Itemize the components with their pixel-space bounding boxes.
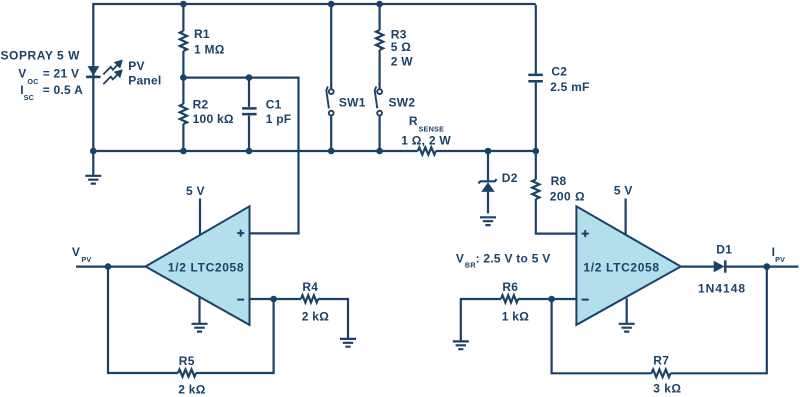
pin U1 inverting marker xyxy=(237,299,244,301)
ground D2 xyxy=(480,217,496,225)
svg-text:OC: OC xyxy=(27,77,38,86)
svg-text:R6: R6 xyxy=(502,280,518,294)
node C1 bottom rail xyxy=(246,148,253,155)
capacitor C2 xyxy=(528,75,543,81)
label D1 value 1N4148 xyxy=(698,282,746,296)
wire mid node to feedback corner xyxy=(183,78,298,234)
PV panel diode xyxy=(86,66,100,77)
ground left rail xyxy=(85,151,101,184)
label IPV xyxy=(772,245,786,264)
svg-text:R4: R4 xyxy=(302,280,318,294)
wire R1 R2 branch vertical xyxy=(182,4,184,151)
svg-text:5 Ω: 5 Ω xyxy=(391,40,412,54)
zener diode D2 xyxy=(479,151,497,213)
pin U1 noninverting marker xyxy=(237,230,244,237)
node bottom-left junction xyxy=(90,148,97,155)
wire top rail and left vertical xyxy=(93,4,536,151)
label R8 value 200 Ω xyxy=(550,190,585,204)
svg-text:D2: D2 xyxy=(502,171,518,185)
label R1 name xyxy=(194,27,210,41)
svg-text:D1: D1 xyxy=(716,242,732,256)
label R7 value 3 kΩ xyxy=(653,382,681,396)
svg-text:200 Ω: 200 Ω xyxy=(550,190,585,204)
label C2 name xyxy=(551,65,567,79)
label D2 xyxy=(502,171,518,185)
svg-text:SC: SC xyxy=(24,93,34,102)
label VPV xyxy=(72,245,92,264)
label R4 name xyxy=(302,280,318,294)
label PV Panel xyxy=(128,59,161,88)
svg-text:SENSE: SENSE xyxy=(419,125,445,134)
svg-text:R: R xyxy=(409,114,418,128)
label VBR range xyxy=(456,251,551,269)
wire U2 output xyxy=(681,266,799,268)
resistor RSENSE xyxy=(418,147,436,154)
node VPV junction xyxy=(105,263,112,270)
wire R7 feedback loop xyxy=(552,267,767,374)
resistor R4 xyxy=(301,295,318,302)
svg-text:V: V xyxy=(72,245,80,259)
svg-text:1 Ω, 2 W: 1 Ω, 2 W xyxy=(401,133,451,147)
label R6 value 1 kΩ xyxy=(502,309,529,323)
label D1 xyxy=(716,242,732,256)
ground R6 xyxy=(453,341,469,349)
node U2 inverting junction xyxy=(548,296,555,303)
label SW1 xyxy=(339,96,366,110)
label C1 name xyxy=(266,97,282,111)
svg-text:5 V: 5 V xyxy=(186,184,205,198)
svg-text:2 kΩ: 2 kΩ xyxy=(178,383,205,397)
svg-text:1 MΩ: 1 MΩ xyxy=(194,43,225,57)
label VOC = 21 V xyxy=(18,67,79,86)
wire R3 SW2 branch xyxy=(379,4,381,151)
svg-text:PV: PV xyxy=(128,59,145,73)
wire R4 to ground xyxy=(318,299,348,339)
svg-text:2 kΩ: 2 kΩ xyxy=(302,309,329,323)
svg-text:3 kΩ: 3 kΩ xyxy=(653,382,681,396)
svg-text:SOPRAY 5 W: SOPRAY 5 W xyxy=(1,49,81,63)
svg-text:1N4148: 1N4148 xyxy=(698,282,746,296)
label C2 value 2.5 mF xyxy=(550,80,590,94)
node SW1 bottom rail xyxy=(328,148,335,155)
label U2 1/2 LTC2058 xyxy=(583,261,659,275)
svg-text:1/2 LTC2058: 1/2 LTC2058 xyxy=(168,261,244,275)
label R2 name xyxy=(193,97,209,111)
switch SW1 xyxy=(326,4,333,151)
ground U1 xyxy=(192,297,208,331)
svg-text:5 V: 5 V xyxy=(614,184,633,198)
svg-text:SW2: SW2 xyxy=(389,96,416,110)
label C1 value 1 pF xyxy=(266,112,292,126)
diode D1 xyxy=(714,260,726,272)
wire VPV input xyxy=(76,266,146,268)
wire bottom rail right of RSENSE xyxy=(436,150,536,152)
resistor R1 xyxy=(180,31,187,51)
svg-text:1/2 LTC2058: 1/2 LTC2058 xyxy=(583,261,659,275)
label 5 V U2 xyxy=(614,184,633,198)
op-amp U1 1/2 LTC2058 left xyxy=(146,206,250,325)
label R4 value 2 kΩ xyxy=(302,309,329,323)
svg-text:= 21 V: = 21 V xyxy=(43,67,80,81)
label R5 value 2 kΩ xyxy=(178,383,205,397)
svg-text:1 kΩ: 1 kΩ xyxy=(502,309,529,323)
label SOPRAY 5 W xyxy=(1,49,81,63)
resistor R8 xyxy=(532,180,539,200)
label ISC = 0.5 A xyxy=(20,83,83,102)
label R5 name xyxy=(179,354,195,368)
op-amp U2 1/2 LTC2058 right xyxy=(576,206,680,325)
node R1 R2 mid xyxy=(180,74,187,81)
node D2 bottom rail xyxy=(485,148,492,155)
svg-text:1 pF: 1 pF xyxy=(266,112,292,126)
node U1 inverting junction xyxy=(270,296,277,303)
wire R5 feedback loop xyxy=(108,267,274,373)
svg-text:R2: R2 xyxy=(193,97,209,111)
node SW2 bottom rail xyxy=(376,148,383,155)
wire U1 inverting input to R4 xyxy=(250,298,302,300)
node SW2 top rail xyxy=(376,1,383,8)
pin U2 inverting marker xyxy=(582,299,589,301)
svg-text:100 kΩ: 100 kΩ xyxy=(193,112,234,126)
label RSENSE value 1 Ω, 2 W xyxy=(401,133,451,147)
node IPV junction xyxy=(763,263,770,270)
svg-text:2 W: 2 W xyxy=(391,55,414,69)
svg-text:: 2.5 V to 5 V: : 2.5 V to 5 V xyxy=(476,251,551,265)
svg-text:Panel: Panel xyxy=(128,73,161,87)
ground U2 xyxy=(619,298,635,331)
label RSENSE name xyxy=(409,114,444,133)
label R8 name xyxy=(551,174,567,188)
label U1 1/2 LTC2058 xyxy=(168,261,244,275)
svg-text:V: V xyxy=(456,251,464,265)
svg-text:= 0.5 A: = 0.5 A xyxy=(43,83,83,97)
svg-text:R1: R1 xyxy=(194,27,210,41)
resistor R2 xyxy=(180,104,187,124)
PV panel light arrows xyxy=(103,60,123,85)
svg-text:R8: R8 xyxy=(551,174,567,188)
resistor R3 xyxy=(376,30,383,50)
svg-text:C1: C1 xyxy=(266,97,282,111)
label R3 value 5 Ω xyxy=(391,40,412,54)
node C1 top xyxy=(246,74,253,81)
capacitor C1 xyxy=(242,78,257,151)
wire bottom rail left of RSENSE xyxy=(93,150,418,152)
ground R4 xyxy=(340,339,356,347)
wire U2 5V supply stem xyxy=(624,199,626,235)
label R3 name xyxy=(391,28,407,42)
resistor R5 xyxy=(178,369,196,376)
svg-text:R5: R5 xyxy=(179,354,195,368)
switch SW2 xyxy=(375,87,382,116)
label R7 name xyxy=(653,354,669,368)
wire U1 5V supply stem xyxy=(199,199,201,235)
label SW2 xyxy=(389,96,416,110)
svg-text:C2: C2 xyxy=(551,65,567,79)
label R6 name xyxy=(502,280,518,294)
svg-text:SW1: SW1 xyxy=(339,96,366,110)
node R2 bottom rail xyxy=(180,148,187,155)
label R2 value 100 kΩ xyxy=(193,112,234,126)
node C2 branch bottom rail xyxy=(533,148,540,155)
svg-text:R7: R7 xyxy=(653,354,669,368)
label 5 V U1 xyxy=(186,184,205,198)
resistor R7 xyxy=(652,370,671,378)
wire R6 input and left ground drop xyxy=(461,299,577,341)
svg-text:PV: PV xyxy=(775,255,785,264)
svg-text:PV: PV xyxy=(81,255,91,264)
node R1 top rail xyxy=(180,1,187,8)
wire C2 R8 branch vertical xyxy=(536,5,577,234)
pin U2 noninverting marker xyxy=(582,230,589,237)
node SW1 top rail xyxy=(328,1,335,8)
svg-text:V: V xyxy=(18,67,26,81)
svg-text:2.5 mF: 2.5 mF xyxy=(550,80,590,94)
label R3 value 2 W xyxy=(391,55,414,69)
label R1 value 1 MΩ xyxy=(194,43,225,57)
resistor R6 xyxy=(501,295,518,302)
